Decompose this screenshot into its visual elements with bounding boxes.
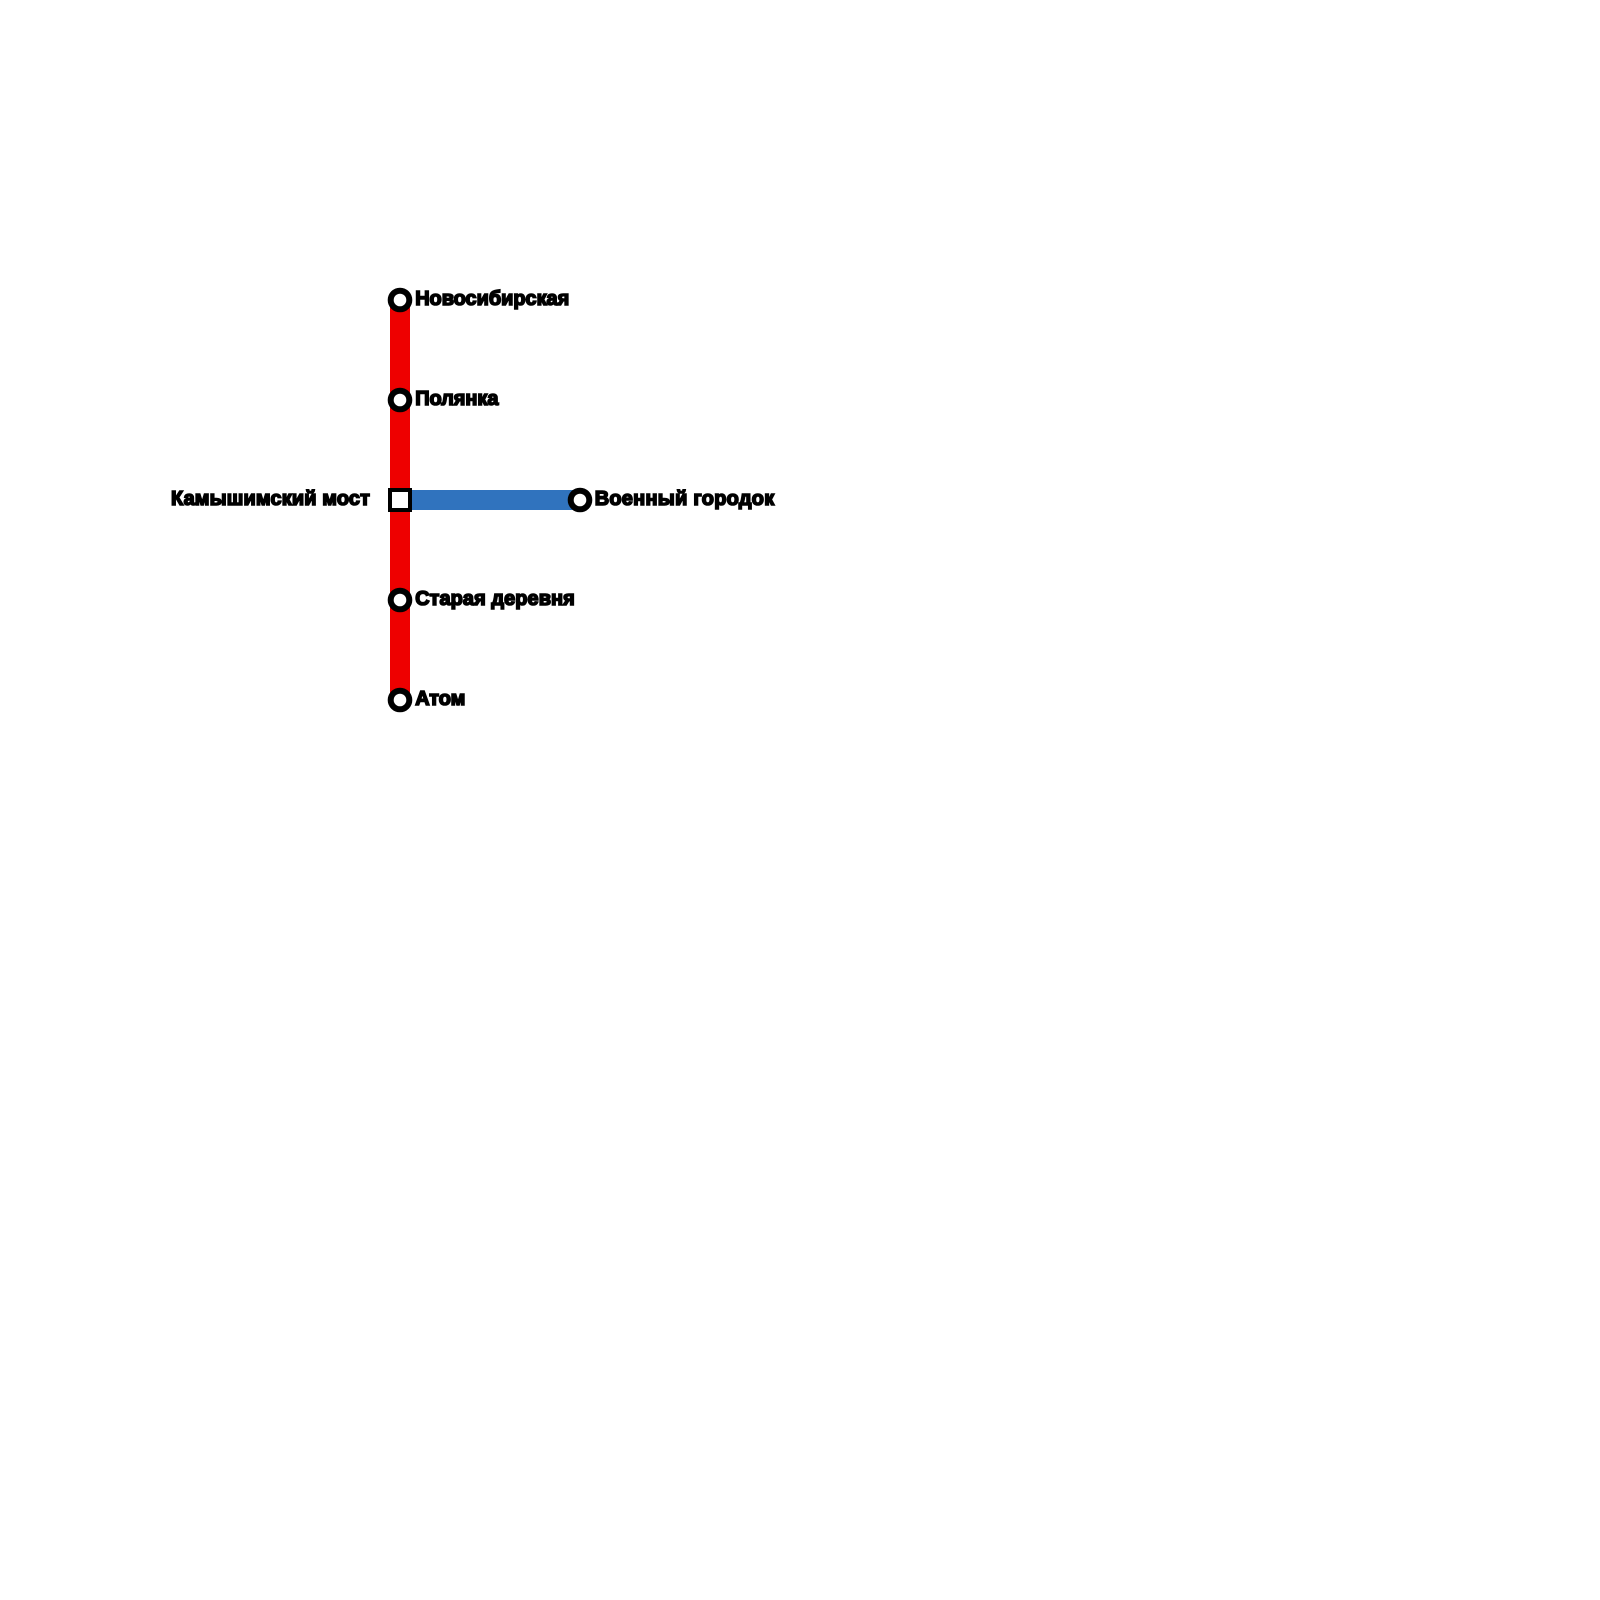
svg-text:Старая деревня: Старая деревня xyxy=(415,588,575,610)
svg-text:Новосибирская: Новосибирская xyxy=(415,288,569,310)
blue metro line (Камышимский мост - Военный городок) xyxy=(400,490,580,510)
svg-text:Атом: Атом xyxy=(415,688,465,710)
svg-text:Полянка: Полянка xyxy=(415,388,499,410)
red metro line (Новосибирская - Атом) xyxy=(390,300,410,700)
station Полянка marker xyxy=(391,391,410,410)
transfer station Камышимский мост marker xyxy=(390,490,410,510)
station Новосибирская marker xyxy=(391,291,410,310)
svg-text:Военный городок: Военный городок xyxy=(595,488,775,510)
station Старая деревня marker xyxy=(391,591,410,610)
station Военный городок marker xyxy=(571,491,590,510)
svg-text:Камышимский мост: Камышимский мост xyxy=(171,488,370,510)
station Атом marker xyxy=(391,691,410,710)
